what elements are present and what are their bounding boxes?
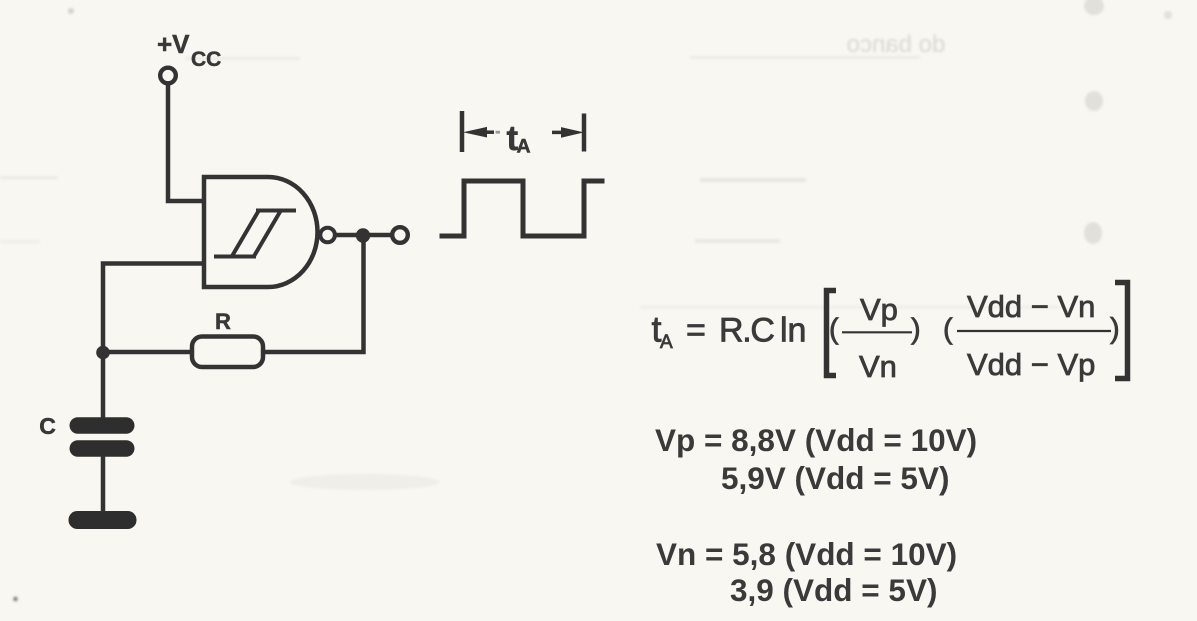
svg-text:A: A: [517, 136, 531, 158]
svg-text:=: =: [686, 312, 706, 350]
svg-text:R.C: R.C: [719, 312, 774, 350]
svg-text:+V: +V: [157, 29, 190, 59]
svg-text:Vdd − Vp: Vdd − Vp: [967, 347, 1095, 382]
svg-text:CC: CC: [191, 48, 221, 71]
svg-text:(: (: [829, 314, 839, 346]
svg-text:ln: ln: [780, 312, 806, 350]
svg-text:): ): [1110, 313, 1120, 345]
svg-text:C: C: [39, 413, 56, 439]
svg-text:): ): [911, 314, 921, 346]
svg-text:Vp: Vp: [860, 292, 898, 327]
svg-text:5,9V (Vdd = 5V): 5,9V (Vdd = 5V): [721, 460, 949, 496]
svg-text:R: R: [215, 309, 231, 334]
svg-text:Vp = 8,8V (Vdd = 10V): Vp = 8,8V (Vdd = 10V): [655, 422, 977, 458]
svg-text:do banco: do banco: [847, 31, 946, 58]
svg-text:Vdd − Vn: Vdd − Vn: [967, 289, 1095, 324]
svg-text:A: A: [660, 332, 673, 353]
svg-text:3,9 (Vdd = 5V): 3,9 (Vdd = 5V): [730, 572, 937, 608]
svg-text:(: (: [943, 314, 953, 346]
svg-text:Vn = 5,8 (Vdd = 10V): Vn = 5,8 (Vdd = 10V): [656, 536, 957, 572]
svg-text:Vn: Vn: [859, 349, 897, 384]
